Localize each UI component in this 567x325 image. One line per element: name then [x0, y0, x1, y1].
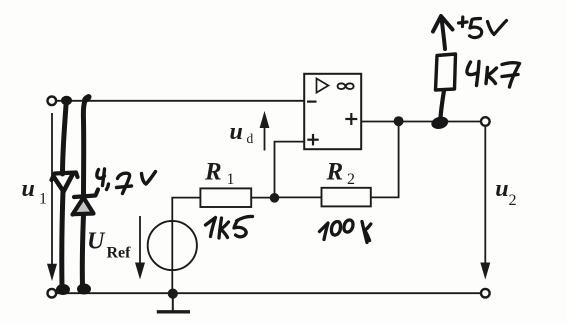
- ground: [157, 294, 190, 312]
- wire R1 left to source top: [172, 198, 200, 294]
- arrow u1: [47, 113, 57, 281]
- arrow u2: [480, 127, 490, 280]
- supply +5V arrow: [433, 16, 453, 49]
- svg-text:Ref: Ref: [107, 245, 132, 262]
- svg-text:U: U: [87, 229, 106, 255]
- wire R1 right to node: [251, 197, 274, 199]
- svg-text:u: u: [495, 176, 508, 202]
- op-amp U1 plus output sign: [345, 113, 357, 125]
- svg-text:u: u: [230, 119, 243, 145]
- terminal bottom-right: [481, 289, 490, 298]
- junction blob bottom rail left branch: [56, 284, 70, 295]
- junction blob top rail left branch: [61, 96, 72, 106]
- wire hand zener branch left: [63, 99, 67, 174]
- terminal top-left: [48, 97, 57, 106]
- op-amp U1 body: [304, 74, 361, 149]
- node B (output/feedback junction): [394, 116, 404, 126]
- node C (source/ground junction): [168, 289, 178, 299]
- svg-text:R: R: [204, 159, 222, 186]
- resistor R1 body: [200, 188, 251, 207]
- zener diode D1 (left branch): [52, 173, 78, 192]
- wire hand zener branch left lower segment: [62, 191, 63, 287]
- arrow ud: [260, 111, 270, 151]
- resistor R2 body: [322, 188, 371, 207]
- svg-text:1: 1: [227, 171, 235, 188]
- wire output line: [361, 121, 481, 123]
- op-amp U1 minus input sign: [307, 100, 317, 102]
- junction blob bottom rail right branch: [77, 284, 91, 295]
- label 1k5 handwritten: [206, 216, 253, 238]
- svg-text:u: u: [22, 176, 35, 202]
- label 4k7 handwritten: [467, 62, 520, 88]
- op-amp U1 plus input sign: [307, 134, 318, 145]
- label 4.7V handwritten: [97, 169, 156, 194]
- resistor R3 (4k7 pull-up) body: [436, 54, 456, 90]
- op-amp U1 triangle symbol: [317, 79, 329, 93]
- wire R2 right to feedback corner: [371, 122, 399, 198]
- zener diode D2 (right branch): [73, 190, 99, 215]
- terminal bottom-left: [48, 289, 57, 298]
- svg-text:d: d: [247, 131, 254, 146]
- junction blob top rail right branch: [80, 93, 93, 105]
- node A (R1/R2/+input junction): [270, 193, 280, 203]
- label 100k handwritten: [320, 220, 371, 243]
- wire R3 to output node: [441, 91, 445, 119]
- hand-drawn parts: [52, 16, 520, 295]
- svg-text:2: 2: [347, 171, 355, 188]
- wire node to R2 left: [275, 196, 322, 198]
- op-amp U1 infinity symbol: [338, 83, 354, 89]
- junction blob output line: [430, 115, 450, 131]
- terminal output right: [481, 117, 490, 126]
- voltage source Uref circle: [148, 221, 197, 270]
- arrow Uref: [135, 216, 145, 280]
- svg-text:2: 2: [509, 192, 517, 209]
- wire top rail (inverting input line): [57, 100, 305, 102]
- label +5V handwritten: [459, 17, 507, 38]
- wire hand zener branch right: [83, 97, 88, 197]
- svg-text:1: 1: [39, 191, 47, 208]
- wire node to non-inverting input: [275, 142, 305, 198]
- wire hand zener branch right lower segment: [82, 215, 83, 287]
- wire bottom rail: [57, 292, 481, 294]
- svg-text:R: R: [326, 159, 344, 186]
